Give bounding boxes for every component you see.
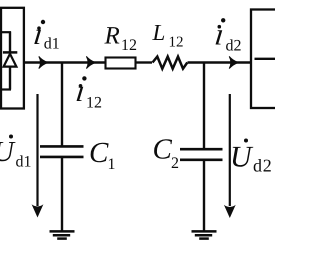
svg-text:12: 12 bbox=[121, 37, 137, 54]
converter box left bbox=[1, 8, 24, 109]
label L12 bbox=[152, 20, 184, 51]
capacitor C1 top plate bbox=[40, 145, 84, 148]
ground right bbox=[192, 231, 217, 238]
node junction right bbox=[203, 63, 205, 150]
label i12 bbox=[74, 73, 102, 111]
svg-text:C: C bbox=[89, 137, 109, 169]
wire diode lower lead bbox=[9, 67, 11, 90]
arrow Ud2 line bbox=[229, 94, 231, 206]
thyristor V1 cathode bar bbox=[3, 51, 17, 54]
inductor L12 zigzag bbox=[153, 57, 188, 69]
svg-text:d2: d2 bbox=[253, 156, 272, 176]
resistor R12 bbox=[106, 58, 136, 69]
wire C1 to ground bbox=[61, 157, 63, 231]
wire main dc line left bbox=[24, 61, 105, 63]
thyristor V1 triangle bbox=[4, 54, 17, 67]
label id2 bbox=[213, 16, 241, 54]
arrow Ud1 line bbox=[36, 94, 38, 206]
arrowhead Ud2 down bbox=[224, 205, 236, 218]
svg-text:U: U bbox=[0, 136, 16, 168]
svg-text:R: R bbox=[104, 22, 120, 49]
wire R12 to L12 bbox=[137, 61, 153, 63]
svg-text:2: 2 bbox=[171, 155, 179, 172]
arrowhead id1 bbox=[39, 56, 48, 68]
label C1 bbox=[89, 137, 116, 173]
wire C2 to ground bbox=[203, 160, 205, 232]
converter box right bbox=[251, 10, 281, 109]
wire bottom stub in left box bbox=[0, 88, 11, 90]
svg-text:d1: d1 bbox=[16, 154, 32, 171]
capacitor C2 bottom plate bbox=[180, 159, 223, 162]
svg-text:L: L bbox=[152, 20, 166, 45]
capacitor C2 top plate bbox=[180, 148, 223, 151]
ground left bbox=[50, 231, 75, 238]
node junction left bbox=[61, 63, 63, 147]
svg-text:12: 12 bbox=[169, 35, 184, 51]
arrowhead id2 bbox=[229, 56, 238, 68]
wire L12 to right box bbox=[188, 61, 252, 63]
svg-text:U: U bbox=[230, 141, 254, 174]
wire top stub in left box bbox=[0, 31, 11, 33]
label C2 bbox=[153, 134, 180, 173]
label id1 bbox=[32, 16, 60, 53]
wire stub in right box bbox=[255, 58, 278, 60]
label Ud2 bbox=[230, 139, 272, 176]
svg-text:d1: d1 bbox=[44, 36, 60, 53]
label R12 bbox=[104, 22, 138, 54]
svg-text:1: 1 bbox=[108, 156, 116, 173]
svg-text:d2: d2 bbox=[226, 38, 242, 55]
wire diode upper lead bbox=[9, 32, 11, 53]
arrowhead Ud1 down bbox=[32, 204, 44, 217]
capacitor C1 bottom plate bbox=[40, 156, 84, 159]
svg-text:C: C bbox=[153, 134, 173, 166]
arrowhead i12 bbox=[86, 56, 95, 68]
svg-text:12: 12 bbox=[86, 95, 102, 112]
label Ud1 bbox=[0, 135, 32, 171]
